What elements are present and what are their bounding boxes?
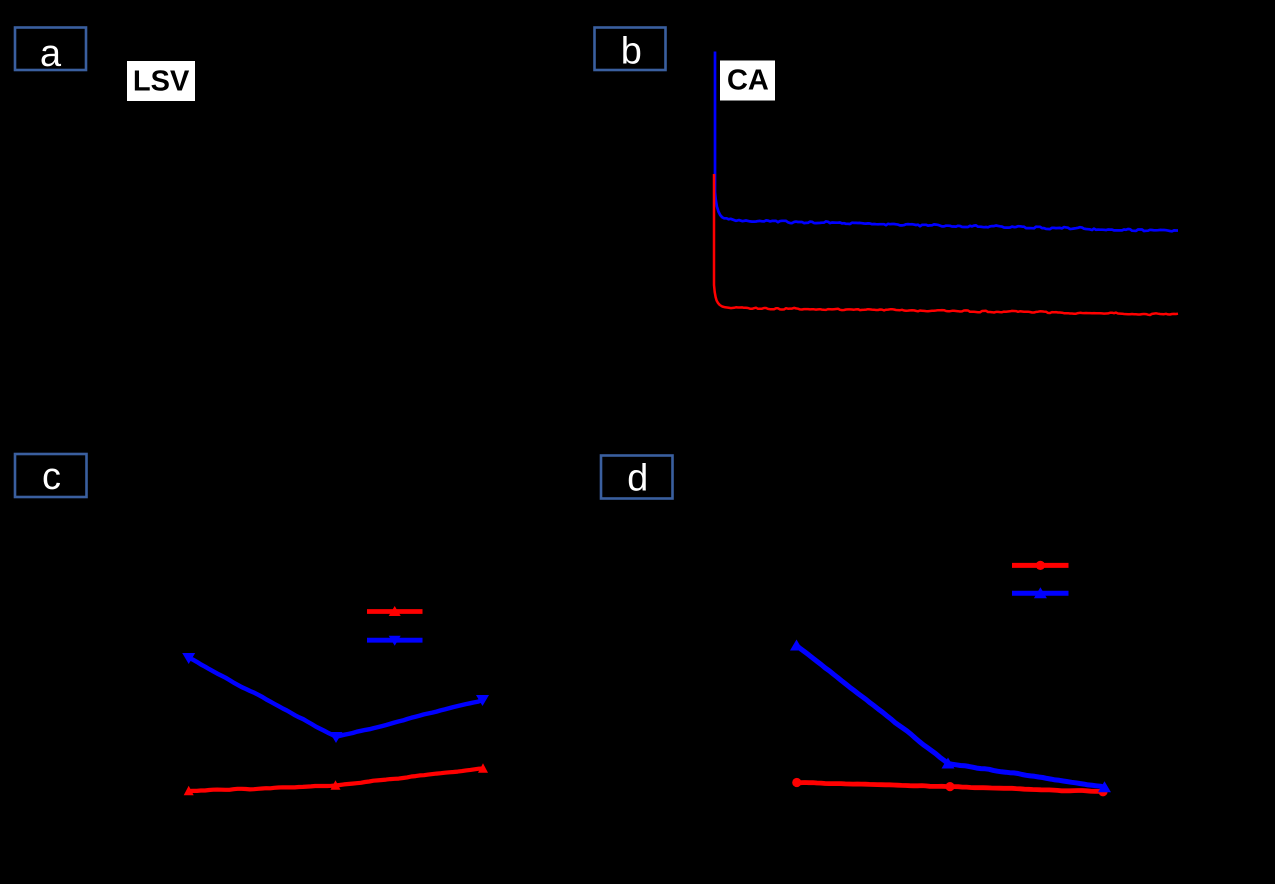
panel letter a (42, 46, 62, 67)
panel label box a (15, 28, 86, 71)
red data series line (panel c) (189, 769, 483, 792)
LSV label (127, 61, 195, 101)
red data markers (panel d) (792, 778, 1107, 797)
legend red series (panel c) (367, 606, 423, 616)
red data markers (panel c) (184, 763, 488, 795)
panel letter c (44, 469, 60, 490)
blue data series line (panel d) (797, 646, 1105, 788)
panel label box d (601, 456, 673, 499)
blue data markers (panel c) (182, 653, 489, 743)
panel label box b (595, 28, 666, 71)
blue data markers (panel d) (790, 640, 1111, 793)
CA red chronoamperometry curve (panel b) (714, 174, 1178, 315)
legend blue series (panel d) (1012, 587, 1069, 598)
panel letter d (629, 463, 646, 491)
CA blue chronoamperometry curve (panel b) (715, 52, 1178, 232)
blue data series line (panel c) (189, 658, 483, 737)
red data series line (panel d) (797, 783, 1103, 792)
panel label box c (15, 454, 87, 497)
legend blue series (panel c) (367, 636, 423, 646)
legend red series (panel d) (1012, 561, 1069, 570)
CA label (720, 61, 775, 101)
panel letter b (623, 36, 640, 64)
